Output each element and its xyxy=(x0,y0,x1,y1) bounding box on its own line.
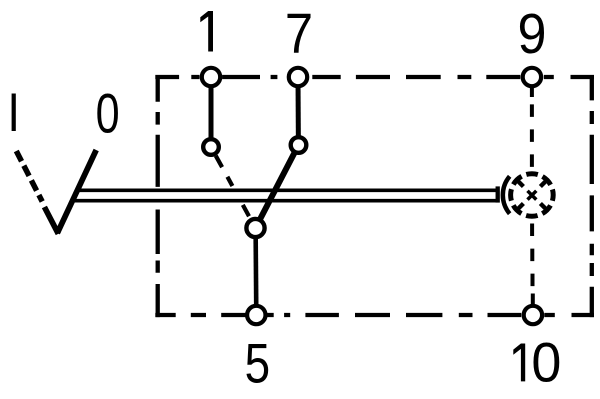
label I xyxy=(12,94,16,132)
wire dashed terminal 9 to lamp xyxy=(530,104,534,166)
svg-text:0: 0 xyxy=(96,82,120,145)
label 10 xyxy=(513,344,525,382)
enclosure border bottom (dash-dot) xyxy=(155,313,594,317)
enclosure border left (dash-dot) xyxy=(156,75,160,317)
contact node A (under terminal 1) xyxy=(203,139,219,155)
enclosure border top (dash-dot) xyxy=(155,75,594,79)
wire pivot to terminal 5 xyxy=(253,228,258,315)
label 1 xyxy=(200,11,213,52)
lever position I (dashed line) xyxy=(16,151,42,202)
terminal 5 circle xyxy=(247,306,265,324)
lamp X center cross xyxy=(528,191,537,200)
lamp socket arc xyxy=(503,176,510,213)
contact node B (under terminal 7) xyxy=(291,137,307,153)
wire contact A to pivot (dashed, position I path) xyxy=(216,156,249,217)
lamp L1 (illumination) dashed circle xyxy=(511,174,554,217)
svg-text:5: 5 xyxy=(245,331,271,394)
wire contact B to pivot (solid, position 0 path) xyxy=(256,145,299,228)
svg-text:0: 0 xyxy=(531,330,561,393)
actuator bar double line bottom xyxy=(74,199,500,203)
actuator bar double line top xyxy=(78,188,499,192)
contact pivot node C xyxy=(246,219,264,237)
terminal 9 circle xyxy=(523,68,541,86)
wire terminal 1 stem xyxy=(209,77,214,147)
lamp X arm dashes xyxy=(516,179,547,210)
enclosure border right (dash-dot) xyxy=(590,75,594,317)
lever pivot V stroke xyxy=(44,207,58,234)
wire dashed lamp to terminal 10 xyxy=(530,224,535,316)
terminal 7 circle xyxy=(289,68,307,86)
svg-text:7: 7 xyxy=(285,2,313,66)
wire terminal 9 stub xyxy=(530,77,534,97)
terminal 1 circle xyxy=(202,68,220,86)
terminal 10 circle xyxy=(524,306,542,324)
actuator bar end cap xyxy=(496,186,500,202)
svg-text:9: 9 xyxy=(518,2,547,66)
wire terminal 7 stem xyxy=(296,77,301,145)
lever position 0 (solid line) xyxy=(57,150,96,233)
